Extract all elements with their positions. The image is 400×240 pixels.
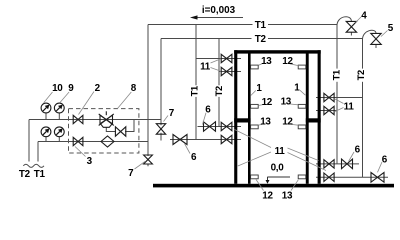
svg-text:10: 10 <box>52 83 63 94</box>
svg-text:5: 5 <box>388 23 394 34</box>
svg-text:T1: T1 <box>189 86 200 96</box>
svg-text:2: 2 <box>95 83 101 94</box>
svg-text:T1: T1 <box>34 169 46 180</box>
svg-text:T2: T2 <box>355 70 366 80</box>
svg-text:13: 13 <box>282 191 293 202</box>
svg-text:1: 1 <box>294 83 300 94</box>
svg-text:12: 12 <box>262 97 273 108</box>
svg-text:13: 13 <box>261 56 272 67</box>
svg-text:T2: T2 <box>213 86 224 96</box>
svg-text:12: 12 <box>262 191 273 202</box>
svg-text:T1: T1 <box>255 20 267 31</box>
svg-text:6: 6 <box>191 152 197 163</box>
svg-text:11: 11 <box>344 101 355 112</box>
svg-text:i=0,003: i=0,003 <box>202 5 236 16</box>
svg-text:12: 12 <box>282 117 293 128</box>
svg-text:9: 9 <box>68 83 74 94</box>
svg-text:7: 7 <box>169 108 175 119</box>
svg-text:4: 4 <box>361 11 367 22</box>
svg-text:T1: T1 <box>331 70 342 80</box>
svg-text:11: 11 <box>275 146 286 157</box>
svg-text:3: 3 <box>87 156 93 167</box>
svg-text:7: 7 <box>128 168 134 179</box>
svg-text:6: 6 <box>355 144 361 155</box>
svg-text:6: 6 <box>382 154 388 165</box>
svg-text:T2: T2 <box>255 34 267 45</box>
svg-text:1: 1 <box>256 83 262 94</box>
svg-text:13: 13 <box>260 117 271 128</box>
svg-text:0,0: 0,0 <box>271 163 285 174</box>
svg-text:6: 6 <box>205 105 211 116</box>
svg-text:8: 8 <box>131 83 137 94</box>
svg-text:12: 12 <box>282 56 293 67</box>
svg-text:T2: T2 <box>19 169 31 180</box>
svg-text:11: 11 <box>200 62 211 73</box>
svg-text:13: 13 <box>281 97 292 108</box>
